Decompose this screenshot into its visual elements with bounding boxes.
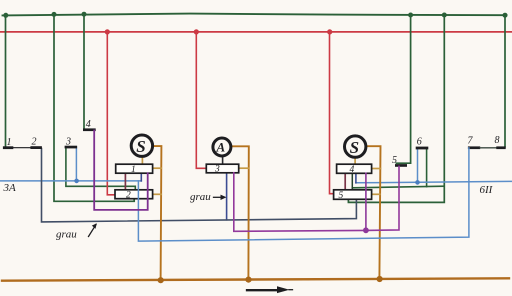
wire brown S2 to bottom bus: [367, 146, 381, 279]
svg-text:1: 1: [131, 165, 136, 175]
wire tan box2 tick: [153, 193, 161, 195]
wire tan S1 bottom stub: [141, 158, 143, 164]
terminal box 2: [115, 190, 153, 199]
terminal stub 3: [65, 146, 78, 149]
wire blue 6II line: [356, 181, 512, 182]
wire purple box4 bottom riser: [365, 173, 367, 230]
wire black jumper stub7-stub8: [480, 147, 496, 149]
svg-text:6: 6: [417, 137, 422, 148]
wire brown A to bottom bus: [231, 146, 249, 279]
wire purple stub4 to box1 bottom: [94, 131, 148, 210]
svg-text:5: 5: [392, 155, 397, 166]
terminal stub 2: [30, 146, 42, 149]
wire black A bottom stub: [222, 157, 224, 165]
wire green bus (top): [3, 14, 507, 16]
arrow grau mid: [214, 196, 224, 198]
wire maroon box4 to box5: [344, 173, 346, 190]
wire grau stub2 to box5 bottom: [42, 149, 357, 222]
terminal box 3: [206, 164, 238, 173]
wire green drop to stub 5: [397, 15, 411, 163]
svg-text:4: 4: [350, 165, 355, 175]
svg-text:A: A: [216, 140, 226, 155]
wire tan box3 tick: [239, 167, 249, 169]
node green junction x=505: [503, 13, 508, 18]
node red junction x=107: [105, 29, 110, 34]
svg-text:3: 3: [214, 165, 220, 175]
terminal stub 7: [468, 146, 480, 149]
node red junction x=330: [327, 29, 332, 34]
terminal stub 6: [416, 147, 429, 150]
terminal box 4: [337, 164, 372, 173]
svg-text:4: 4: [86, 119, 91, 130]
terminal stub 4: [83, 128, 96, 131]
node green junction x=54: [52, 12, 57, 17]
terminal box 1: [116, 164, 153, 173]
switch symbol S1: [131, 135, 152, 156]
node green junction x=84: [82, 12, 87, 17]
node green junction x=444: [442, 13, 447, 18]
node brown junction S1: [158, 277, 164, 283]
wire brown bus (bottom): [2, 278, 509, 280]
wire blue U connector: [138, 148, 469, 241]
wire red bus (top): [0, 31, 512, 33]
svg-text:grau: grau: [56, 229, 77, 241]
wire green stub6 drop: [426, 148, 428, 186]
wire tan box5 tick: [372, 193, 380, 195]
wire red drop to box3 left: [196, 32, 206, 168]
wire green box5-top to bus vertical: [352, 186, 444, 188]
svg-text:3A: 3A: [3, 182, 17, 194]
wire black jumper stub1-stub2: [13, 147, 30, 149]
svg-text:S: S: [350, 138, 359, 157]
wire tan box4 tick: [372, 168, 381, 170]
terminal stub 5: [395, 164, 407, 167]
node brown junction S2: [377, 276, 383, 282]
wire brown S1 to bottom bus: [154, 146, 162, 280]
switch symbol A: [213, 138, 231, 156]
svg-text:6II: 6II: [480, 184, 494, 196]
wire tan S2 bottom stub: [354, 159, 356, 164]
svg-text:1: 1: [7, 137, 12, 148]
terminal stub 8: [496, 146, 505, 149]
arrow grau left: [89, 225, 97, 237]
wire red drop to box2 left: [107, 32, 115, 195]
wire blue stub6 drop: [417, 148, 419, 182]
node blue junction 6II: [415, 180, 420, 185]
wire blue stub3 drop: [75, 147, 77, 181]
wire navy box1 bottom riser: [140, 173, 142, 181]
wire purple box3 to stub5: [234, 166, 399, 231]
terminal box 5: [334, 190, 372, 200]
switch symbol S2: [345, 136, 366, 157]
wire green drop to stub 4: [83, 14, 85, 129]
node blue junction 3A: [74, 179, 79, 184]
wire maroon box1 to box2: [124, 173, 126, 190]
wire green to box2 bottom: [54, 14, 134, 201]
wire navy box3 bottom riser: [226, 173, 228, 220]
node green junction x=6: [3, 13, 8, 18]
wire red drop to box5 left: [330, 32, 334, 194]
svg-text:2: 2: [32, 137, 37, 148]
node red junction x=196: [194, 29, 199, 34]
svg-text:S: S: [136, 137, 145, 156]
svg-text:grau: grau: [190, 191, 211, 203]
wire blue 3A line: [0, 180, 141, 182]
arrow direction bottom: [247, 289, 278, 291]
wire green-black box4 bottom to box5 top: [351, 173, 353, 190]
node green junction x=411: [408, 13, 413, 18]
terminal stub 1: [3, 146, 13, 149]
svg-text:3: 3: [65, 136, 71, 147]
wire navy box4 bottom riser: [355, 173, 357, 183]
wire tan box1 tick: [153, 167, 161, 169]
wire green drop to stub 1: [5, 15, 7, 146]
wire green long drop to box5 bottom: [348, 15, 444, 202]
node brown junction A: [245, 277, 251, 283]
wire green drop to stub 8: [504, 15, 506, 147]
wire green stub3 to box2 top: [66, 147, 135, 190]
svg-text:2: 2: [126, 191, 131, 201]
node purple junction: [363, 227, 369, 233]
svg-text:5: 5: [339, 191, 344, 201]
svg-text:8: 8: [495, 135, 500, 146]
